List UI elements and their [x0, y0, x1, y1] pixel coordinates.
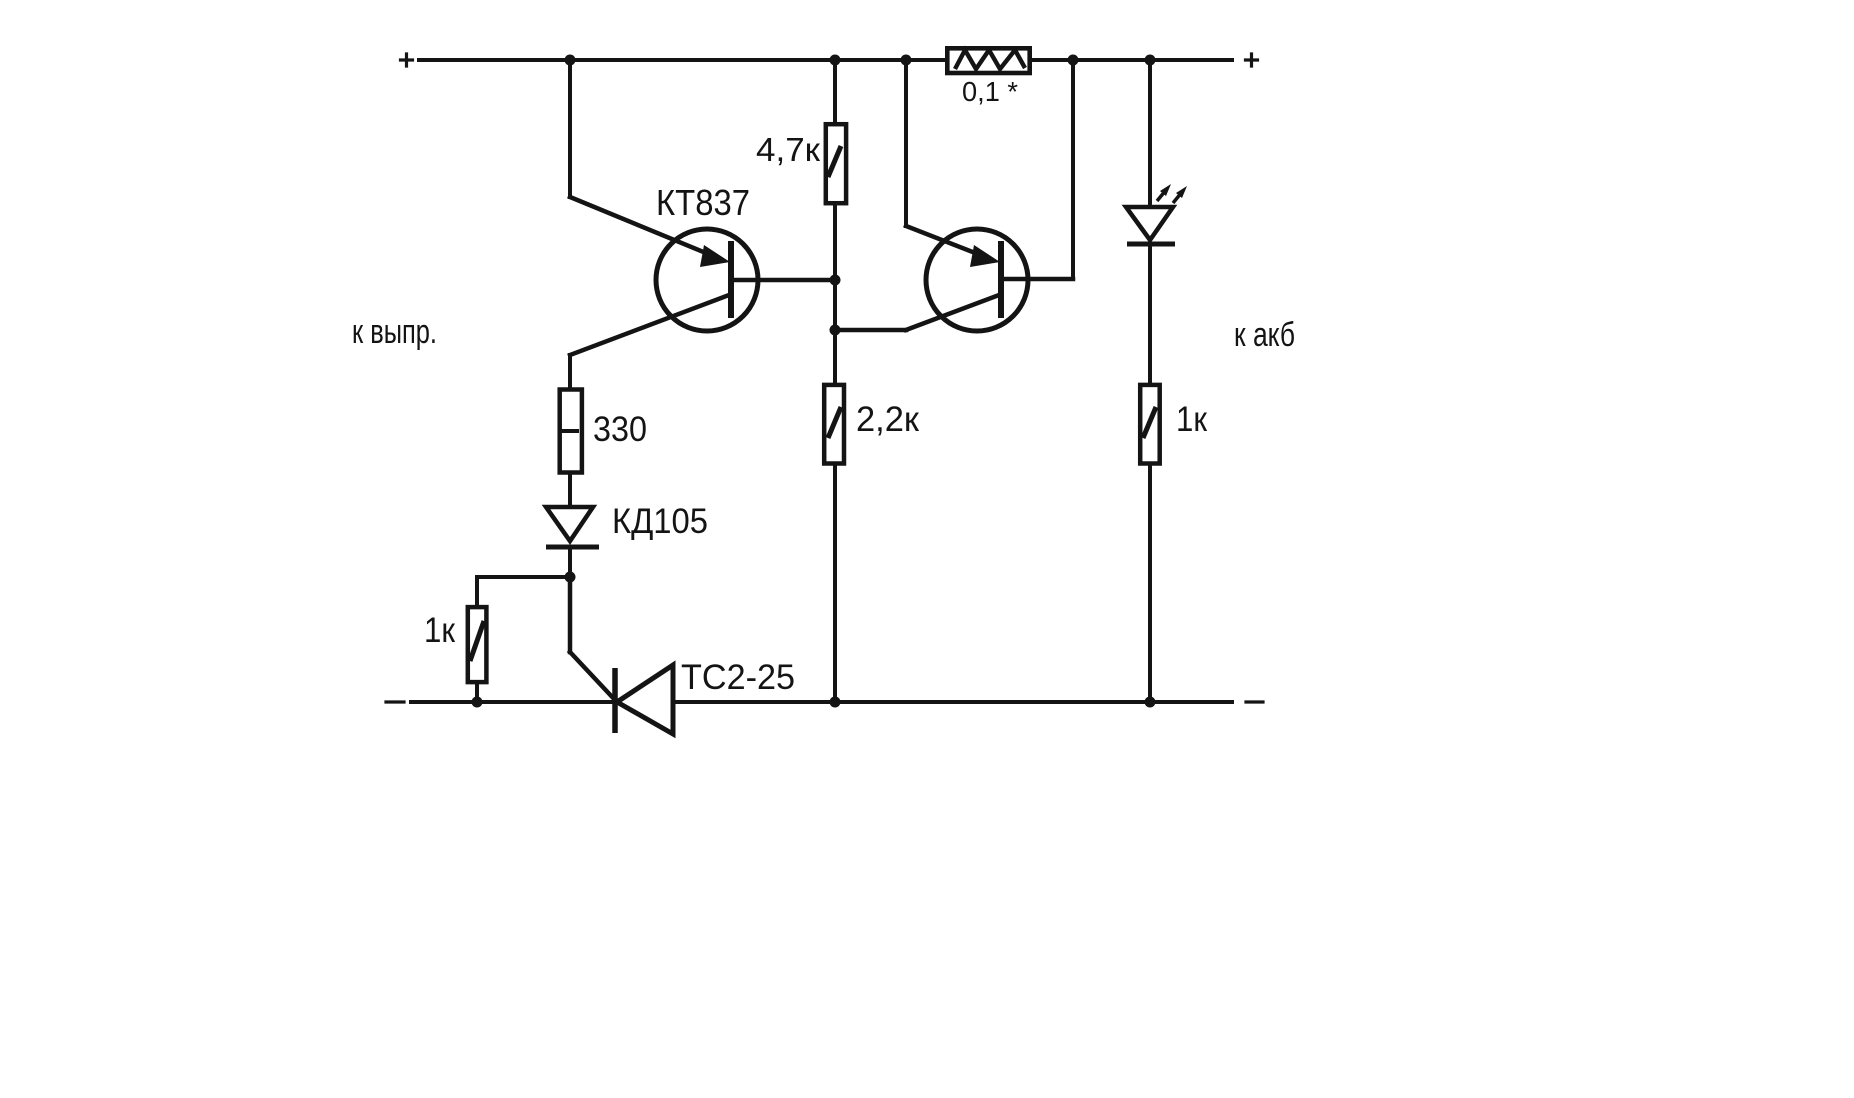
svg-text:КТ837: КТ837 — [656, 182, 750, 223]
junction dot top rail at x=1073 — [1068, 55, 1079, 66]
svg-text:КД105: КД105 — [612, 502, 708, 541]
thyristor VS1 triangle — [617, 665, 673, 734]
wire VT2 collector diagonal — [906, 295, 999, 330]
resistor R2,2k body — [824, 385, 844, 464]
svg-text:1к: 1к — [424, 611, 456, 650]
resistor R4,7k body — [826, 124, 846, 203]
svg-text:ТС2-25: ТС2-25 — [681, 658, 795, 697]
wire R330 to diode — [568, 475, 572, 507]
wire R2,2k to bottom rail — [833, 466, 837, 702]
junction dot top rail at x=570 — [565, 55, 576, 66]
wire down to R1k left — [475, 577, 479, 604]
junction dot top rail at x=1150 — [1145, 55, 1156, 66]
wire VT2 collector horizontal to node — [835, 328, 906, 333]
wire R4,7k down through nodes — [833, 205, 837, 383]
wire from top rail down at x=906 — [904, 60, 908, 226]
wire R1k right to bottom rail — [1148, 466, 1152, 702]
node + (left terminal, plus sign) — [401, 54, 413, 66]
VT1 emitter arrowhead — [700, 245, 730, 267]
wire VT2 base lead right — [1003, 277, 1073, 282]
node - (right minus) — [1246, 700, 1263, 703]
junction dot at VT1 base node — [830, 275, 841, 286]
resistor R1k right body — [1140, 385, 1160, 464]
junction dot top rail at x=836 — [830, 55, 841, 66]
wire VT2 base up to top rail — [1071, 60, 1075, 279]
wire VT1 collector diagonal — [570, 295, 729, 355]
svg-text:к выпр.: к выпр. — [352, 313, 437, 351]
LED HL1 light arrow 1 — [1157, 190, 1166, 201]
wire VT2 emitter diagonal — [906, 226, 988, 258]
svg-text:0,1 *: 0,1 * — [962, 76, 1018, 107]
transistor VT2 base bar — [998, 241, 1004, 318]
wire from top rail down to R4,7k — [833, 60, 837, 122]
junction node A dot — [565, 572, 576, 583]
wire bottom rail right segment — [673, 700, 1232, 704]
node + (right terminal, plus sign) — [1246, 54, 1258, 66]
wire from top rail down to LED — [1148, 60, 1152, 207]
junction dot top rail at x=906 — [901, 55, 912, 66]
junction dot bottom rail x=477 — [472, 697, 483, 708]
wire diode to junction — [568, 547, 572, 577]
wire bottom rail left segment — [411, 700, 615, 704]
LED HL1 cathode bar — [1127, 242, 1175, 247]
diode VD1 KD105 triangle — [546, 507, 593, 541]
wire LED to R1k right — [1148, 244, 1152, 383]
svg-text:к акб: к акб — [1234, 316, 1295, 354]
wire R1k left to bottom rail — [475, 684, 479, 702]
resistor R330 body — [560, 390, 582, 473]
wire top rail left segment — [419, 58, 945, 62]
junction dot bottom rail x=1150 — [1145, 697, 1156, 708]
svg-text:2,2к: 2,2к — [856, 400, 920, 439]
resistor R1k left body — [468, 607, 487, 682]
LED HL1 light arrow 2 — [1173, 192, 1182, 203]
wire thyristor gate vertical — [568, 577, 573, 652]
diode VD1 cathode bar — [546, 545, 599, 550]
resistor R1k left slash — [470, 621, 484, 661]
wire VT1 emitter diagonal — [570, 197, 718, 258]
junction dot at VT2 collector node — [830, 325, 841, 336]
thyristor VS1 cathode bar — [612, 668, 618, 733]
resistor R4,7k slash — [828, 146, 841, 177]
svg-text:1к: 1к — [1176, 400, 1208, 439]
wire top rail right segment — [1032, 58, 1232, 62]
wire junction to left branch — [477, 575, 570, 579]
resistor R5 0,1* shunt box — [947, 48, 1029, 73]
resistor R2,2k slash — [828, 407, 841, 438]
svg-text:330: 330 — [593, 410, 647, 449]
resistor R1k right slash — [1143, 407, 1156, 438]
transistor VT1 KT837 circle — [656, 229, 758, 331]
wire from top rail down at x=570 — [568, 60, 572, 197]
svg-text:4,7к: 4,7к — [756, 131, 821, 168]
wire thyristor gate diagonal — [570, 652, 615, 700]
transistor VT1 base bar — [728, 241, 734, 318]
transistor VT2 circle — [926, 229, 1028, 331]
node - (left minus) — [386, 700, 404, 703]
resistor R330 inner dash — [559, 429, 579, 433]
wire collector down to R330 — [568, 355, 572, 388]
resistor R5 zigzag element — [955, 50, 1025, 69]
VT2 emitter arrowhead — [970, 245, 1000, 267]
junction dot bottom rail x=835 — [830, 697, 841, 708]
LED HL1 triangle — [1126, 207, 1173, 240]
wire VT1 base lead to node — [733, 278, 835, 283]
